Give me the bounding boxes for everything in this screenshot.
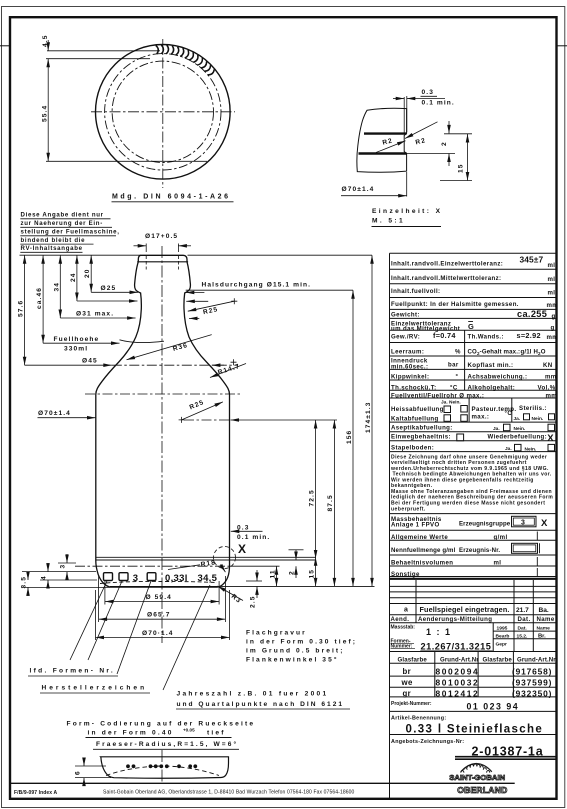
svg-text:Fuellventil/Fuellrohr Ø max.:: Fuellventil/Fuellrohr Ø max.:	[391, 392, 484, 399]
svg-text:ca.255: ca.255	[517, 309, 547, 319]
svg-text:Artikel-Benennung:: Artikel-Benennung:	[391, 716, 446, 722]
dim 156	[352, 290, 354, 586]
svg-text:mm: mm	[545, 374, 557, 381]
svg-text:tief: tief	[207, 730, 226, 737]
svg-text:R2: R2	[382, 137, 394, 146]
svg-text:24: 24	[70, 272, 77, 282]
svg-text:Fuellpunkt: In der Halsmitte g: Fuellpunkt: In der Halsmitte gemessen.	[391, 301, 519, 308]
svg-text:F/B/9-097 Index A: F/B/9-097 Index A	[14, 790, 57, 796]
svg-text:Glasfarbe: Glasfarbe	[483, 657, 513, 664]
left dim 20	[90, 255, 92, 292]
svg-text:21.7: 21.7	[516, 607, 529, 614]
bottom view dashed push-up arc	[106, 766, 219, 776]
heel hidden dashed curve	[100, 581, 217, 583]
svg-text:Ø25: Ø25	[101, 285, 117, 292]
svg-text:R18: R18	[200, 559, 216, 568]
svg-text:Gepr: Gepr	[496, 641, 508, 647]
svg-text:Name: Name	[537, 625, 551, 631]
svg-text:Mdg. DIN 6094-1-A26: Mdg. DIN 6094-1-A26	[112, 194, 231, 201]
svg-text:Ø 59.4: Ø 59.4	[146, 594, 172, 601]
left base ext lines	[22, 571, 96, 573]
svg-text:we: we	[401, 678, 413, 687]
note block: Diese Angabe dient nur ...	[20, 212, 119, 253]
svg-text:Erzeugnisgruppe: Erzeugnisgruppe	[459, 521, 511, 528]
svg-text:Grund-Art.Nr: Grund-Art.Nr	[440, 657, 479, 664]
svg-text:mm: mm	[547, 302, 559, 309]
dim 2.5	[246, 580, 262, 582]
svg-text:Inhalt.fuellvoll:: Inhalt.fuellvoll:	[391, 288, 440, 295]
svg-text:Nennfuellmenge g/ml: Nennfuellmenge g/ml	[391, 547, 456, 554]
detail X: lower mold seam bar	[359, 152, 407, 154]
R25 neck leader	[231, 298, 237, 304]
svg-text:Ja. Nein.: Ja. Nein.	[441, 400, 461, 406]
data table left border	[389, 253, 391, 799]
svg-text:RV-Inhaltsangabe: RV-Inhaltsangabe	[21, 245, 83, 252]
leader from 34,5	[163, 585, 210, 690]
svg-text:Fuellhoehe: Fuellhoehe	[54, 336, 100, 343]
Glasfarbe table verticals	[434, 652, 436, 697]
embossing square 3	[147, 573, 156, 581]
R18 leader	[168, 565, 200, 570]
svg-text:Ba.: Ba.	[539, 607, 549, 614]
left dim 24	[76, 255, 78, 301]
bottom view outline	[101, 757, 229, 778]
dim 174+-1.3	[188, 254, 373, 256]
svg-text:Jahreszahl z.B. 01 fuer 2001: Jahreszahl z.B. 01 fuer 2001	[177, 691, 329, 698]
svg-text:CO2-Gehalt max.:: CO2-Gehalt max.:	[468, 349, 521, 356]
svg-text:Erzeugnis-Nr.: Erzeugnis-Nr.	[459, 547, 500, 554]
svg-text:0.3: 0.3	[422, 89, 434, 96]
svg-text:0.33 l Steinieflasche: 0.33 l Steinieflasche	[406, 724, 544, 736]
svg-text:Einwegbehaeltnis:: Einwegbehaeltnis:	[391, 434, 451, 441]
svg-text:Gewicht:: Gewicht:	[391, 312, 420, 319]
svg-text:Nein.: Nein.	[532, 416, 544, 422]
svg-text:(917658): (917658)	[512, 666, 552, 676]
svg-text:Bearb: Bearb	[496, 633, 510, 639]
leader from square1	[70, 581, 107, 660]
svg-text:34: 34	[53, 282, 60, 292]
svg-text:Ø70·1.4: Ø70·1.4	[142, 630, 174, 637]
svg-text:174±1.3: 174±1.3	[365, 402, 372, 434]
svg-text:R36: R36	[172, 342, 189, 353]
dim 4.5	[47, 40, 49, 51]
detail X: dim 2	[407, 153, 455, 155]
svg-text:G: G	[468, 322, 474, 331]
svg-text:Anlage 1 FPVO: Anlage 1 FPVO	[391, 522, 440, 529]
legal paragraph	[390, 454, 553, 512]
svg-text:zur Naeherung der Ein-: zur Naeherung der Ein-	[21, 220, 103, 227]
svg-text:Form- Codierung auf der Ruecks: Form- Codierung auf der Rueckseite	[67, 721, 256, 728]
svg-text:4: 4	[41, 575, 48, 580]
heel band top double line	[96, 556, 316, 558]
svg-text:Dat.: Dat.	[518, 616, 531, 623]
svg-text:Fuellspiegel eingetragen.: Fuellspiegel eingetragen.	[420, 605, 510, 614]
svg-text:Inhalt.randvoll.Einzelwerttole: Inhalt.randvoll.Einzelwerttoleranz:	[391, 261, 503, 268]
svg-text:gr: gr	[403, 689, 412, 698]
svg-text:156: 156	[346, 430, 353, 444]
svg-text:Vol.%: Vol.%	[538, 384, 556, 391]
reference line y420 to right	[184, 419, 230, 421]
svg-text:11: 11	[270, 569, 277, 578]
svg-text:Name: Name	[537, 616, 555, 623]
top view: inner dash-dot circle	[112, 61, 213, 162]
svg-text:Kaltabfuellung: Kaltabfuellung	[391, 416, 439, 423]
svg-text:2: 2	[441, 141, 448, 146]
svg-text:g: g	[551, 325, 555, 332]
double line under drawing number	[455, 756, 557, 758]
svg-text:1 : 1: 1 : 1	[426, 627, 452, 637]
svg-text:330ml: 330ml	[64, 345, 88, 352]
svg-text:Ø70±1.4: Ø70±1.4	[342, 186, 375, 193]
svg-text:57.6: 57.6	[18, 300, 25, 317]
dim 11	[276, 566, 278, 586]
svg-text:Projekt-Nummer:: Projekt-Nummer:	[391, 701, 432, 707]
data table row lines	[390, 253, 557, 734]
top view: knurl marks	[156, 45, 215, 75]
svg-text:Herstellerzeichen: Herstellerzeichen	[42, 685, 148, 692]
svg-text:max.:: max.:	[472, 413, 490, 420]
row 7 Gew/RV + Th.Wands	[464, 330, 466, 390]
svg-text:lfd. Formen- Nr.: lfd. Formen- Nr.	[30, 668, 116, 675]
svg-text:mm: mm	[547, 334, 559, 341]
svg-text:4.5: 4.5	[42, 35, 49, 47]
detail X: R2 leader left	[376, 141, 406, 153]
svg-text:Fraeser-Radius,R=1.5, W=6°: Fraeser-Radius,R=1.5, W=6°	[96, 740, 238, 748]
svg-text:R2: R2	[415, 137, 427, 146]
dim o65.7	[99, 618, 226, 620]
dim o59.4	[105, 601, 219, 603]
heel band dash-dot line	[75, 565, 230, 567]
svg-text:Wiederbefuellung:: Wiederbefuellung:	[488, 434, 548, 441]
svg-text:55.4: 55.4	[42, 105, 49, 122]
svg-text:Einzelheit: X: Einzelheit: X	[372, 208, 442, 215]
svg-text:Aseptikabfuellung:: Aseptikabfuellung:	[391, 424, 453, 431]
detail X: R2 leader right	[405, 122, 438, 139]
detail X: wall section blob	[357, 108, 407, 172]
dim 87.5	[333, 420, 335, 586]
lower R25 leader	[179, 417, 185, 423]
detail X: dim line o70+-1.4	[406, 172, 408, 197]
svg-text:ml: ml	[548, 262, 556, 269]
svg-text:72.5: 72.5	[308, 489, 315, 506]
bottom view centerline	[161, 750, 163, 784]
svg-text:87.5: 87.5	[327, 494, 334, 511]
dim 6	[75, 765, 106, 767]
embossing square 2	[119, 573, 128, 581]
svg-text:01 023 94: 01 023 94	[467, 702, 520, 712]
svg-text:Sterilis.:: Sterilis.:	[519, 405, 547, 412]
bore hidden lines	[145, 244, 147, 253]
lip bottom line	[137, 261, 188, 263]
svg-text:3.5: 3.5	[21, 576, 28, 588]
svg-text:br: br	[403, 667, 412, 676]
svg-text:Gew./RV:: Gew./RV:	[391, 334, 420, 341]
svg-text:Br.: Br.	[538, 634, 546, 640]
leader from square2	[88, 581, 122, 660]
svg-text:R25: R25	[189, 399, 206, 411]
dim 3.5 left	[27, 572, 29, 580]
svg-text:X: X	[541, 518, 548, 529]
Heiss/Kalt cell dividers	[468, 398, 470, 422]
dim 15 heel	[315, 557, 317, 586]
svg-text:Angebots-Zeichnungs-Nr:: Angebots-Zeichnungs-Nr:	[391, 739, 464, 745]
dim 4 left	[47, 563, 49, 572]
svg-text:%: %	[455, 349, 461, 356]
svg-text:3: 3	[60, 564, 67, 569]
left dim 57.6	[24, 255, 26, 365]
svg-text:Ø45: Ø45	[82, 357, 98, 364]
embossing square 1	[104, 573, 113, 581]
svg-text:a: a	[404, 607, 408, 614]
svg-text:ueberprueft.: ueberprueft.	[391, 506, 426, 512]
svg-text:8010032: 8010032	[436, 678, 480, 688]
svg-text:Flachgravur: Flachgravur	[246, 629, 307, 636]
detail X: 0.3 groove extension lines	[403, 97, 405, 134]
footer separator line	[10, 782, 515, 784]
svg-text:(932350): (932350)	[512, 688, 552, 698]
svg-text:Massstab:: Massstab:	[391, 625, 416, 631]
svg-text:20: 20	[84, 268, 91, 278]
top view: middle dash-dot circle	[105, 54, 221, 170]
svg-text:X: X	[238, 542, 246, 556]
svg-text:0,33l: 0,33l	[165, 573, 188, 584]
svg-text:Grund-Art.Nr: Grund-Art.Nr	[517, 657, 556, 664]
svg-text:bindend bleibt die: bindend bleibt die	[21, 237, 86, 244]
svg-text:3: 3	[133, 573, 138, 584]
svg-text:15.2.: 15.2.	[517, 633, 529, 639]
svg-text:Aend.: Aend.	[391, 616, 410, 623]
svg-text:8002094: 8002094	[436, 666, 480, 676]
dim 55.4	[47, 59, 49, 162]
svg-text:Allgemeine Werte: Allgemeine Werte	[391, 534, 448, 541]
svg-text:0.3: 0.3	[237, 525, 249, 532]
top view: horizontal centerline	[91, 111, 235, 113]
detail X: dim 15	[440, 180, 472, 182]
svg-text:im Grund 0.5 breit;: im Grund 0.5 breit;	[246, 648, 345, 655]
svg-text:345±7: 345±7	[520, 255, 544, 265]
svg-text:Nein.: Nein.	[525, 446, 537, 452]
svg-text:(937599): (937599)	[512, 678, 552, 688]
svg-text:in der Form 0.40: in der Form 0.40	[88, 730, 174, 737]
o45 centerline dash-dot across	[112, 364, 238, 366]
dim 72.5	[315, 420, 317, 559]
R36 leader	[127, 335, 212, 360]
fill height line	[43, 342, 119, 344]
svg-text:OBERLAND: OBERLAND	[457, 785, 507, 795]
svg-text:21.267/31.3215: 21.267/31.3215	[421, 642, 492, 652]
svg-text:X: X	[547, 433, 554, 444]
svg-text:Th.schockü.T:: Th.schockü.T:	[391, 384, 437, 391]
dim 3 left	[66, 554, 68, 563]
detail X: upper mold seam bar	[364, 132, 407, 134]
svg-text:stellung der Fuellmaschine,: stellung der Fuellmaschine,	[21, 229, 120, 236]
svg-text:ml: ml	[548, 276, 556, 283]
svg-text:2.5: 2.5	[250, 596, 257, 608]
svg-text:Saint-Gobain Oberland AG, Ober: Saint-Gobain Oberland AG, Oberlandstrass…	[103, 790, 355, 796]
svg-text:Behaeltnisvolumen: Behaeltnisvolumen	[391, 559, 453, 566]
right centering tick	[557, 45, 567, 47]
top view: vertical centerline	[162, 39, 164, 188]
dim o70+-1.4 bottom	[96, 636, 230, 638]
svg-text:Flankenwinkel 35°: Flankenwinkel 35°	[246, 655, 339, 663]
svg-text:Halsdurchgang Ø15.1 min.: Halsdurchgang Ø15.1 min.	[202, 281, 312, 288]
svg-text:3: 3	[521, 520, 525, 527]
svg-text:Ø31 max.: Ø31 max.	[76, 311, 114, 318]
svg-text:Sonstige: Sonstige	[391, 571, 420, 578]
svg-text:und Quartalpunkte nach DIN 612: und Quartalpunkte nach DIN 6121	[177, 701, 345, 708]
bottle vertical centerline	[161, 246, 163, 643]
svg-text:Inhalt.randvoll.Mittelwerttole: Inhalt.randvoll.Mittelwerttoleranz:	[391, 275, 501, 282]
leader from square3	[117, 581, 151, 674]
dim 4.5 extension lines	[47, 50, 160, 52]
code dots	[126, 764, 197, 768]
logo arch	[461, 764, 492, 772]
thick band under Sonstige	[390, 578, 557, 580]
svg-text:Ø65.7: Ø65.7	[147, 612, 170, 619]
svg-text:M. 5:1: M. 5:1	[372, 218, 405, 225]
svg-text:Kippwinkel:: Kippwinkel:	[391, 374, 429, 381]
svg-text:min.60sec.:: min.60sec.:	[391, 363, 428, 370]
svg-text:1995: 1995	[497, 625, 508, 631]
svg-text:ml: ml	[494, 559, 502, 566]
bearing line extended	[110, 585, 375, 587]
svg-text:Nein.: Nein.	[514, 426, 526, 432]
svg-text:Th.Wands.:: Th.Wands.:	[468, 334, 504, 341]
svg-text:bar: bar	[448, 362, 459, 369]
meniscus arc	[120, 340, 165, 343]
svg-text:Ja.: Ja.	[493, 426, 500, 432]
bottle outline	[96, 255, 230, 587]
dim 24 line to neck	[77, 300, 138, 302]
svg-text:Ø70±1.4: Ø70±1.4	[38, 410, 71, 417]
svg-text:0.1 min.: 0.1 min.	[422, 100, 455, 107]
svg-text:°: °	[456, 374, 459, 381]
svg-text:°C: °C	[505, 410, 513, 417]
svg-text:+0.05: +0.05	[183, 728, 195, 733]
svg-text:Dat.: Dat.	[518, 625, 528, 631]
svg-text:Aenderungs-Mitteilung: Aenderungs-Mitteilung	[418, 616, 492, 623]
dashed detail circle	[214, 547, 236, 569]
svg-text:15: 15	[309, 569, 316, 579]
svg-text:SAINT-GOBAIN: SAINT-GOBAIN	[449, 773, 505, 782]
svg-text:6: 6	[75, 770, 82, 775]
R14.7 leader	[210, 364, 246, 378]
svg-text:Ø17+0.5: Ø17+0.5	[145, 233, 178, 240]
svg-text:in der Form 0.30 tief;: in der Form 0.30 tief;	[246, 638, 357, 645]
svg-text:g: g	[552, 313, 556, 320]
left dim ca.46	[42, 255, 44, 343]
svg-text:Diese Angabe dient nur: Diese Angabe dient nur	[21, 212, 104, 219]
svg-text:Kopflast min.:: Kopflast min.:	[468, 362, 514, 369]
svg-text:Ja.: Ja.	[505, 446, 512, 452]
top view: outer circle	[96, 45, 231, 180]
svg-text:ca.46: ca.46	[36, 287, 43, 309]
revision grid verticals	[415, 580, 417, 623]
svg-text:g/ml: g/ml	[494, 534, 508, 541]
left dim 34	[59, 255, 61, 318]
svg-text:Leerraum:: Leerraum:	[391, 349, 424, 356]
svg-text:0.1 min.: 0.1 min.	[237, 534, 270, 541]
svg-text:f=0.74: f=0.74	[433, 331, 456, 340]
svg-text:R3: R3	[230, 593, 243, 605]
svg-text:Glasfarbe: Glasfarbe	[398, 657, 428, 664]
svg-text:Achsabweichung.:: Achsabweichung.:	[468, 374, 528, 381]
svg-text:8012412: 8012412	[436, 688, 480, 698]
detail X: dim 0.3 / 0.1 min.	[393, 98, 404, 100]
svg-text:°C: °C	[450, 384, 458, 391]
left centering tick	[0, 45, 10, 47]
dim 2 small	[289, 549, 304, 551]
svg-text:Heissabfuellung: Heissabfuellung	[391, 406, 444, 413]
svg-text:mm: mm	[546, 392, 558, 399]
svg-text:KN: KN	[543, 362, 553, 369]
svg-text:Ja.: Ja.	[514, 416, 521, 422]
svg-text:2: 2	[289, 570, 296, 575]
svg-text:ml: ml	[548, 290, 556, 297]
svg-text:Stapelboden:: Stapelboden:	[391, 444, 434, 451]
base dim extension lines	[104, 581, 106, 605]
svg-text:Alkoholgehalt:: Alkoholgehalt:	[468, 384, 516, 391]
R3 leader	[218, 586, 244, 601]
svg-text:g/1l H2O: g/1l H2O	[521, 349, 546, 356]
dim 55.4 extension line bottom	[46, 160, 207, 162]
top extension line at lip	[20, 254, 142, 256]
body dash-dot line at o70 level	[85, 393, 240, 395]
svg-text:15: 15	[458, 163, 465, 173]
svg-text:s=2.92: s=2.92	[517, 331, 541, 340]
